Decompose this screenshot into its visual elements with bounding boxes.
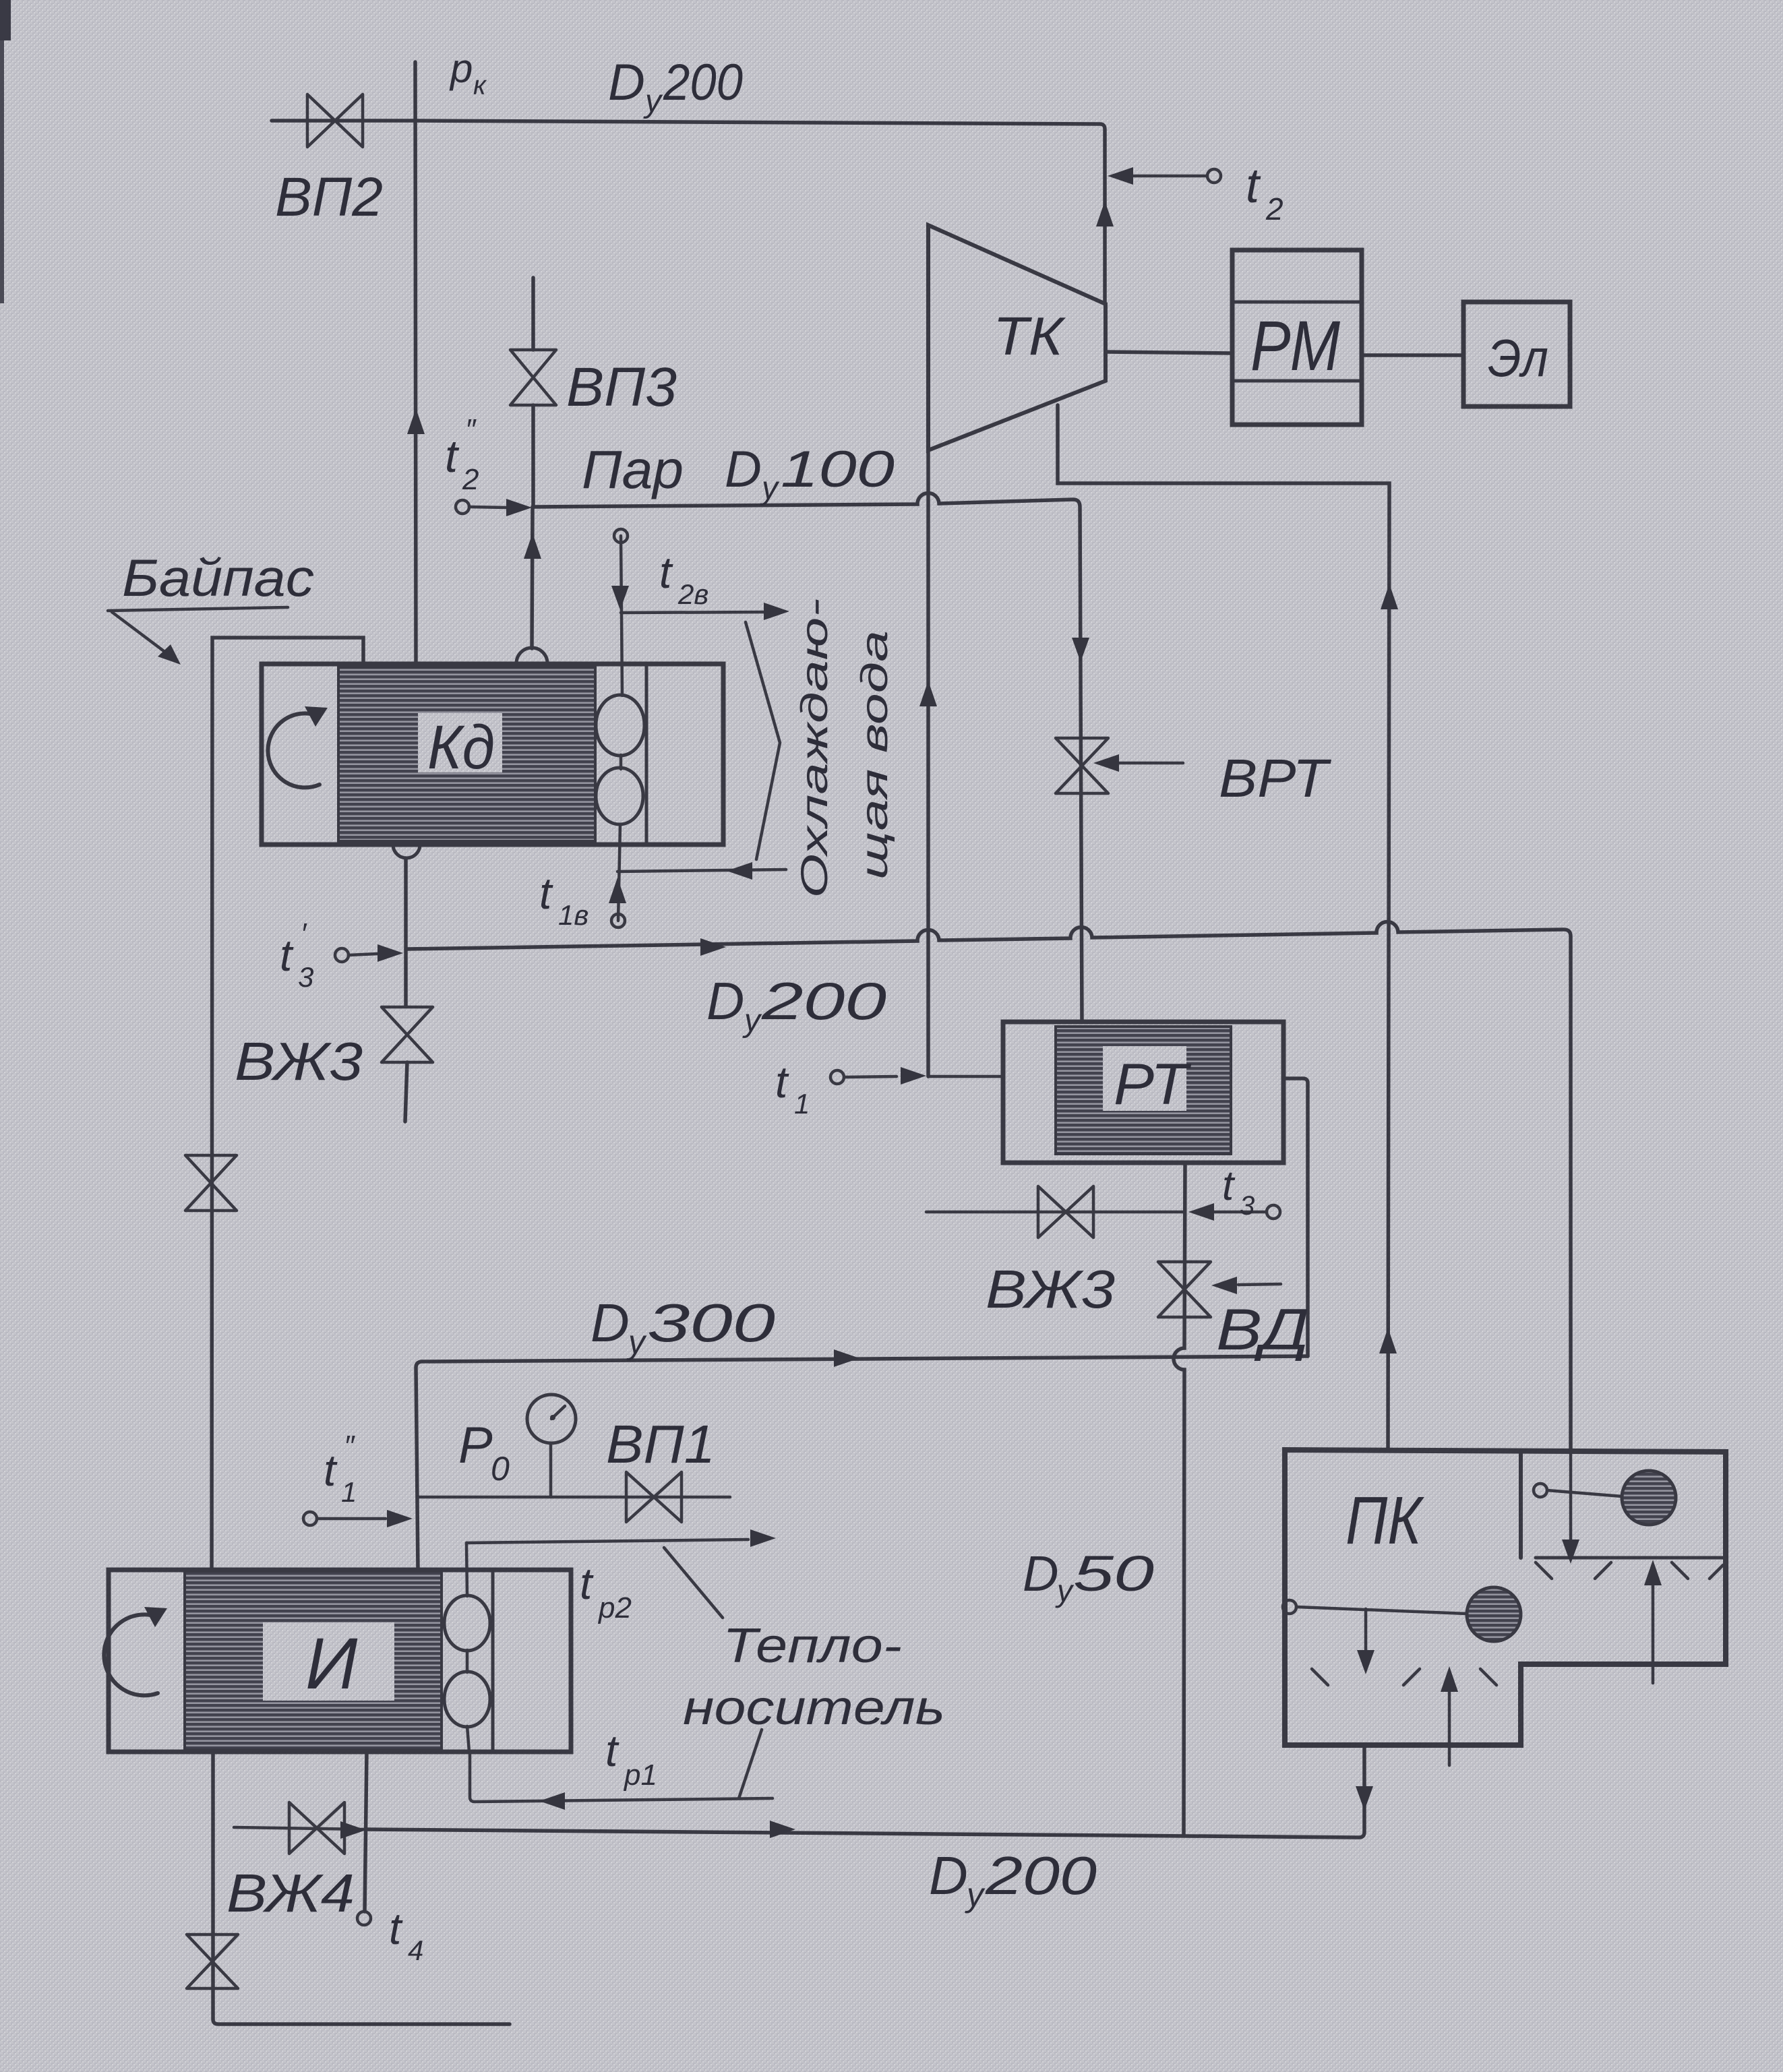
wire Dy300 evaporator vapor header xyxy=(416,1356,1308,1570)
boiler upper riser arrow xyxy=(1652,1584,1655,1683)
boiler lower feed circle small xyxy=(1283,1600,1296,1614)
evaporator I vessel xyxy=(109,1570,571,1752)
arrow right on Dy300 xyxy=(834,1349,859,1367)
svg-text:2: 2 xyxy=(462,463,479,496)
arrow up into turbine inlet xyxy=(1096,201,1114,226)
boiler lower spray ticks xyxy=(1312,1669,1497,1685)
condenser Kd vessel xyxy=(262,664,723,845)
arrow up on condenser vapor stem xyxy=(524,533,541,559)
wire t2v outlet xyxy=(621,612,768,613)
svg-text:t: t xyxy=(445,431,460,482)
evaporator right partition line xyxy=(491,1570,495,1752)
svg-text:200: 200 xyxy=(663,54,743,111)
valve VP3 with stem xyxy=(531,278,535,350)
svg-text:200: 200 xyxy=(761,971,886,1031)
condenser rotation arrow xyxy=(268,713,320,787)
valve VP1 xyxy=(626,1472,682,1522)
condenser water tube line with t2v t1v stems xyxy=(618,536,622,921)
svg-text:t: t xyxy=(1222,1163,1236,1209)
arrow up on pK riser xyxy=(407,408,425,434)
gearbox RM box xyxy=(1232,250,1362,425)
svg-text:D: D xyxy=(591,1293,630,1353)
svg-text:D: D xyxy=(1023,1546,1058,1602)
boiler upper fan circle xyxy=(1622,1471,1676,1525)
svg-text:″: ″ xyxy=(344,1430,355,1463)
svg-text:ТК: ТК xyxy=(993,306,1066,366)
evaporator rotation arrow xyxy=(104,1614,158,1695)
svg-text:ВП2: ВП2 xyxy=(275,166,383,228)
wire t1v inlet xyxy=(617,870,786,872)
wire RM shaft to El xyxy=(1362,353,1463,357)
arrow right on Dy200 mid xyxy=(700,938,726,956)
callout line to Teplo label upper xyxy=(664,1548,723,1618)
svg-text:3: 3 xyxy=(1240,1191,1255,1221)
wire VP3 stem down to condenser dome xyxy=(532,507,533,648)
svg-text:РТ: РТ xyxy=(1114,1052,1192,1117)
wire turbine shaft to RM xyxy=(1106,352,1232,353)
wire condensate drop from Kd xyxy=(404,858,408,1006)
valve VZh3 at RT xyxy=(1038,1186,1093,1238)
wire VP2 branch xyxy=(272,119,415,123)
wire Dy200 bottom return line xyxy=(367,1745,1364,1837)
condenser Kd tube core xyxy=(338,667,595,841)
sensor t2 circle and arrow xyxy=(1207,169,1221,183)
sensor t2v circle xyxy=(614,529,628,543)
valve bypass upper xyxy=(185,1155,237,1211)
sensor t3p circle arrow xyxy=(335,948,349,962)
brace cooling water xyxy=(746,622,780,859)
valve VP2 xyxy=(307,94,363,147)
valve bypass lower xyxy=(187,1934,238,1988)
svg-text:Пар: Пар xyxy=(582,439,684,499)
svg-text:D: D xyxy=(608,54,645,111)
condenser right partition line xyxy=(645,664,648,845)
svg-text:ВП3: ВП3 xyxy=(566,357,677,418)
boiler upper feed circle small xyxy=(1534,1484,1547,1497)
svg-text:Байпас: Байпас xyxy=(122,548,314,607)
svg-text:t: t xyxy=(605,1726,619,1775)
svg-text:ВП1: ВП1 xyxy=(606,1414,715,1474)
arrow up on boiler riser upper xyxy=(1381,584,1398,609)
boiler PK outline xyxy=(1285,1450,1726,1745)
svg-text:Тепло-: Тепло- xyxy=(723,1619,902,1673)
condenser top dome nozzle xyxy=(516,648,547,663)
condenser bottom dome nozzle xyxy=(393,845,420,858)
evaporator I tube core xyxy=(185,1571,442,1750)
sensor t4 circle xyxy=(357,1912,371,1925)
svg-text:ПК: ПК xyxy=(1346,1483,1424,1558)
wire evaporator drain to t4 xyxy=(365,1752,367,1912)
svg-text:3: 3 xyxy=(298,961,313,993)
svg-text:к: к xyxy=(473,71,487,100)
boiler lower riser arrow xyxy=(1448,1690,1451,1765)
svg-text:p: p xyxy=(449,46,473,91)
wire VZh4 branch xyxy=(234,1827,365,1829)
wire Dy200 top header xyxy=(415,121,1105,304)
svg-text:щая вода: щая вода xyxy=(853,630,895,880)
svg-text:Эл: Эл xyxy=(1488,328,1548,388)
svg-text:РМ: РМ xyxy=(1250,307,1340,386)
svg-text:ВРТ: ВРТ xyxy=(1219,748,1332,808)
svg-text:50: 50 xyxy=(1073,1546,1154,1602)
svg-text:у: у xyxy=(760,470,780,506)
boiler upper downcomer arrow xyxy=(1569,1452,1573,1544)
svg-text:ВЖ3: ВЖ3 xyxy=(986,1259,1115,1319)
svg-text:ВЖ4: ВЖ4 xyxy=(226,1863,355,1923)
arrow right on Dy200 bottom xyxy=(770,1821,795,1838)
arrow into valve VRT xyxy=(1119,762,1183,765)
turbine TK body xyxy=(928,225,1106,450)
condenser water circle lower xyxy=(596,768,643,824)
svg-text:2: 2 xyxy=(1265,191,1283,226)
heat exchanger RT vessel xyxy=(1003,1022,1283,1163)
wire turbine steam drop line xyxy=(926,450,930,1076)
valve VRT xyxy=(1056,738,1108,793)
svg-text:1: 1 xyxy=(794,1088,810,1120)
svg-text:t: t xyxy=(775,1057,789,1107)
valve VZh3 under condenser xyxy=(382,1007,433,1062)
boiler upper spray ticks xyxy=(1536,1562,1723,1579)
svg-text:Кд: Кд xyxy=(427,713,495,782)
sensor t3 circle arrow xyxy=(1267,1205,1280,1219)
svg-text:ВЖ3: ВЖ3 xyxy=(235,1031,363,1091)
wire tp2 heating medium out xyxy=(466,1540,748,1543)
svg-text:″: ″ xyxy=(465,413,477,446)
svg-text:4: 4 xyxy=(408,1934,423,1966)
arrow down on t2v stem xyxy=(611,586,629,610)
evaporator water circle lower xyxy=(444,1672,490,1727)
svg-text:0: 0 xyxy=(491,1450,510,1488)
svg-text:у: у xyxy=(1055,1573,1075,1608)
svg-text:200: 200 xyxy=(985,1846,1097,1906)
svg-text:t: t xyxy=(539,868,553,918)
svg-text:Охлаждаю-: Охлаждаю- xyxy=(793,599,835,898)
arrow up on t1v stem xyxy=(609,878,626,903)
svg-text:у: у xyxy=(965,1876,986,1914)
svg-text:t: t xyxy=(1246,159,1261,213)
generator El box xyxy=(1463,302,1570,406)
callout line to Teplo label lower xyxy=(739,1730,762,1798)
wire bypass from condenser top xyxy=(212,638,363,1570)
svg-text:ВД: ВД xyxy=(1216,1298,1309,1362)
svg-text:И: И xyxy=(305,1622,358,1704)
arrow up on boiler riser lower xyxy=(1379,1328,1397,1353)
sensor t1v circle xyxy=(611,914,625,927)
wire RT outlet right to Dy300 xyxy=(1283,1078,1308,1356)
wire Par Dy100 line to RT via VRT xyxy=(533,493,1082,1022)
svg-text:D: D xyxy=(725,441,762,498)
evaporator water tube line xyxy=(466,1543,469,1752)
RT tube core xyxy=(1056,1027,1231,1154)
svg-text:р1: р1 xyxy=(623,1759,657,1792)
valve VZh4 xyxy=(289,1802,344,1854)
arrow right into drain junction xyxy=(340,1821,366,1839)
boiler lower fan circle xyxy=(1467,1587,1521,1641)
arrow into valve VD xyxy=(1238,1284,1281,1285)
evaporator water circle upper xyxy=(444,1595,490,1651)
svg-text:100: 100 xyxy=(781,441,895,498)
svg-text:р2: р2 xyxy=(597,1591,632,1624)
svg-text:1в: 1в xyxy=(558,899,588,931)
svg-text:t: t xyxy=(389,1903,403,1953)
boiler upper spray shelf xyxy=(1536,1556,1726,1560)
wire turbine exhaust to boiler riser xyxy=(1058,405,1389,1450)
svg-text:t: t xyxy=(280,930,294,980)
svg-text:t: t xyxy=(580,1558,594,1608)
arrow up on steam drop line xyxy=(919,681,937,706)
svg-text:2в: 2в xyxy=(677,578,708,610)
svg-text:у: у xyxy=(643,84,663,119)
gauge P0 xyxy=(549,1443,553,1497)
wire Dy200 mid header to boiler xyxy=(406,922,1571,1450)
sensor t1 circle arrow xyxy=(830,1070,844,1084)
svg-text:D: D xyxy=(706,971,744,1031)
wire bypass below evaporator xyxy=(213,1752,510,2024)
svg-text:носитель: носитель xyxy=(683,1681,945,1735)
wire VZh3 bypass line at RT xyxy=(926,1211,1184,1214)
svg-text:t: t xyxy=(659,547,673,597)
arrow down on VRT drop xyxy=(1072,638,1089,662)
sensor t2pp circle arrow xyxy=(456,500,469,514)
Baipas underline and arrow xyxy=(108,607,288,611)
svg-text:300: 300 xyxy=(647,1293,775,1353)
node pK riser pipe xyxy=(415,62,416,663)
svg-text:у: у xyxy=(626,1323,647,1361)
svg-text:t: t xyxy=(324,1445,338,1495)
svg-text:Р: Р xyxy=(458,1417,493,1474)
svg-text:D: D xyxy=(929,1846,968,1906)
arrow down on boiler drain xyxy=(1356,1786,1373,1810)
wire VP1 branch xyxy=(418,1496,730,1499)
wire tp1 heating medium in xyxy=(470,1752,773,1802)
wire t1 junction into RT xyxy=(928,1075,1003,1078)
condenser water circle upper xyxy=(596,695,644,756)
boiler inner partition xyxy=(1519,1452,1523,1558)
sensor t1pp circle arrow xyxy=(303,1512,317,1525)
boiler lower downcomer arrow xyxy=(1364,1609,1368,1650)
valve VD xyxy=(1158,1262,1211,1317)
svg-text:1: 1 xyxy=(341,1476,357,1508)
svg-text:у: у xyxy=(742,1003,762,1039)
wire RT drain via VD (Dy50) xyxy=(1174,1163,1185,1835)
